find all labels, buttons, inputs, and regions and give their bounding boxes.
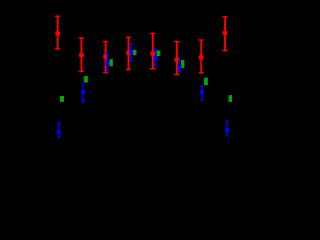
red errorbar point 7 <box>199 39 204 73</box>
red errorbar point 5 <box>150 33 155 70</box>
green square point 3 <box>110 59 113 66</box>
blue errorbar point 4 <box>129 43 133 61</box>
blue errorbar point 5 <box>154 49 158 66</box>
red errorbar point 2 <box>79 37 84 72</box>
red errorbar point 6 <box>174 41 179 76</box>
red errorbar point 3 <box>103 41 108 74</box>
green square point 1 <box>60 96 64 102</box>
green square point 7 <box>204 78 208 85</box>
blue limit arrow point 2 <box>81 84 86 105</box>
blue errorbar point 3 <box>106 53 110 71</box>
green square point 5 <box>156 50 160 56</box>
blue limit arrow point 1 <box>57 122 61 139</box>
green square point 2 <box>84 76 88 82</box>
blue limit arrow point 8 <box>225 121 229 139</box>
red errorbar point 8 <box>222 16 227 51</box>
red errorbar point 4 <box>126 37 131 71</box>
green square point 6 <box>181 60 184 68</box>
red errorbar point 1 <box>55 16 60 50</box>
blue errorbar point 7 <box>200 85 204 101</box>
green square point 4 <box>133 50 137 55</box>
blue errorbar point 6 <box>178 59 182 73</box>
green square point 8 <box>229 95 233 102</box>
